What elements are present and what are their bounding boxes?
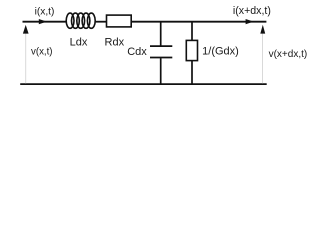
capacitor Cdx top lead xyxy=(160,22,162,46)
current arrow i(x,t) on top-left wire xyxy=(39,19,47,24)
voltage arrow v(x+dx,t) head (right, pointing up) xyxy=(260,25,265,34)
label Ldx xyxy=(70,36,88,48)
label v(x+dx,t) xyxy=(269,49,308,60)
current arrow i(x+dx,t) on top-right wire xyxy=(246,19,254,24)
capacitor Cdx bottom plate xyxy=(150,57,172,59)
bottom wire (return conductor) xyxy=(20,83,267,85)
voltage arrow v(x,t) stem (left) xyxy=(25,33,27,83)
capacitor Cdx bottom lead xyxy=(160,58,162,84)
resistor Rdx (box) xyxy=(107,15,132,27)
capacitor Cdx top plate xyxy=(150,45,172,47)
svg-text:i(x,t): i(x,t) xyxy=(35,7,55,18)
wire between inductor and resistor Rdx xyxy=(95,21,106,23)
svg-text:i(x+dx,t): i(x+dx,t) xyxy=(233,5,271,17)
label Rdx xyxy=(105,36,125,48)
label i(x+dx,t) xyxy=(233,5,271,17)
label 1/(Gdx) xyxy=(202,46,239,58)
inductor Ldx (5 loops) xyxy=(66,13,95,28)
svg-text:1/(Gdx): 1/(Gdx) xyxy=(202,46,239,58)
conductance resistor 1/(Gdx) bottom lead xyxy=(191,61,193,85)
conductance resistor 1/(Gdx) top lead xyxy=(191,22,193,41)
svg-text:Ldx: Ldx xyxy=(70,36,88,48)
svg-text:Cdx: Cdx xyxy=(127,46,147,58)
label i(x,t) xyxy=(35,7,55,18)
conductance resistor 1/(Gdx) box xyxy=(186,40,197,60)
svg-text:v(x+dx,t): v(x+dx,t) xyxy=(269,49,308,60)
label v(x,t) xyxy=(31,46,53,57)
label Cdx xyxy=(127,46,147,58)
svg-text:Rdx: Rdx xyxy=(105,36,125,48)
voltage arrow v(x,t) head (left, pointing up) xyxy=(23,25,29,34)
wire top-right segment (resistor to output) xyxy=(131,21,266,23)
svg-text:v(x,t): v(x,t) xyxy=(31,46,53,57)
wire top-left segment (input to inductor) xyxy=(23,21,67,23)
voltage arrow v(x+dx,t) stem (right) xyxy=(262,33,264,84)
